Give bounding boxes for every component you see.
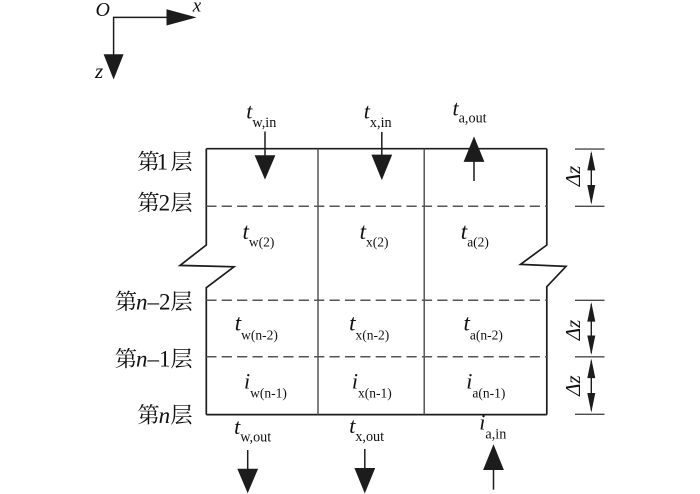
svg-text:x: x — [192, 0, 202, 17]
svg-text:O: O — [96, 0, 110, 21]
dashed row line 1/2 — [206, 205, 547, 207]
axis x arrow — [114, 9, 197, 54]
svg-text:Δz: Δz — [561, 320, 585, 342]
svg-text:Δz: Δz — [561, 375, 585, 397]
arrow t_x,in — [381, 132, 383, 157]
arrow i_a,in — [493, 468, 495, 490]
dimension arrow dz row n-2 — [590, 304, 592, 353]
arrow t_w,in — [264, 132, 266, 158]
layer label 第n-2层 — [116, 291, 137, 311]
axis z arrow — [104, 54, 124, 79]
dimension tick lines — [575, 149, 605, 414]
svg-text:2: 2 — [159, 190, 171, 215]
svg-text:1: 1 — [157, 150, 169, 175]
svg-text:n–2: n–2 — [136, 289, 171, 314]
arrow t_x,out — [364, 449, 366, 470]
layer label 第n层 — [138, 404, 159, 424]
layer label 第n-1层 — [116, 348, 137, 368]
svg-text:n–1: n–1 — [136, 347, 171, 372]
layer label 第2层 — [138, 192, 159, 212]
arrow t_a,out — [473, 160, 475, 181]
dashed row line n-1 — [206, 356, 547, 358]
dimension arrow dz row1 — [590, 153, 592, 202]
layer label 第1层 — [138, 151, 159, 171]
svg-text:Δz: Δz — [561, 166, 585, 188]
column separator 2 — [423, 149, 425, 415]
svg-text:n: n — [159, 403, 171, 428]
arrow t_w,out — [247, 450, 249, 471]
column separator 1 — [317, 149, 319, 415]
dashed row line n-2 — [206, 299, 547, 301]
svg-text:z: z — [94, 59, 103, 83]
dimension arrow dz row n-1 — [590, 361, 592, 411]
grid outer box with break marks — [180, 149, 566, 415]
